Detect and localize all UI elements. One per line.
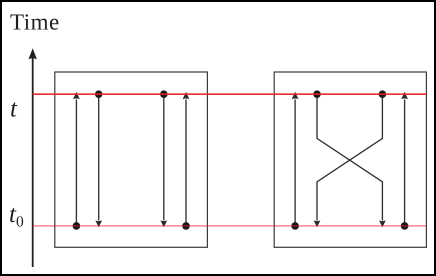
worldline R2 crossing [317, 94, 382, 220]
worldline L4 up [185, 100, 187, 226]
worldline R4 up [404, 100, 406, 226]
dot bottom L1 [73, 222, 81, 230]
dot top L2 [95, 90, 103, 98]
dot top L3 [160, 90, 168, 98]
worldline L1 up [75, 100, 77, 226]
red line t [33, 93, 427, 95]
particle dots [73, 90, 409, 229]
arrowhead L2 down [95, 220, 102, 227]
worldline L3 down [163, 94, 165, 220]
svg-text:Time: Time [10, 10, 60, 35]
svg-text:t0: t0 [9, 201, 24, 230]
arrowhead R2 down [379, 220, 386, 227]
arrowhead R1 up [292, 92, 299, 100]
right box [274, 72, 426, 247]
worldlines [76, 94, 404, 226]
arrowheads [73, 92, 408, 228]
dot bottom R4 [401, 222, 409, 230]
red line t0 [33, 225, 427, 227]
worldline R1 up [294, 100, 296, 226]
svg-text:t: t [10, 96, 18, 123]
worldline R3 crossing [317, 94, 382, 220]
worldline L2 down [98, 94, 100, 220]
left box [55, 72, 208, 247]
dot top R2 [313, 90, 321, 98]
arrowhead L1 up [73, 92, 80, 100]
arrowhead L4 up [183, 92, 190, 100]
arrowhead R3 down [314, 220, 321, 227]
dot bottom R1 [291, 222, 299, 230]
arrowhead R4 up [401, 92, 408, 100]
arrowhead L3 down [160, 220, 167, 227]
dot top R3 [379, 90, 387, 98]
dot bottom L4 [182, 222, 190, 230]
time axis [29, 48, 37, 267]
